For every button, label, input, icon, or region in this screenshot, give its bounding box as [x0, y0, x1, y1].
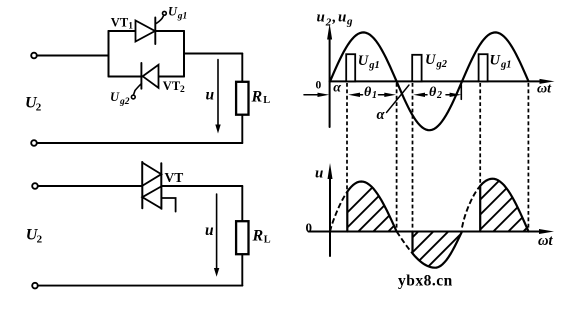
svg-text:0: 0 — [306, 220, 313, 235]
svg-text:VT: VT — [111, 16, 129, 30]
svg-text:,: , — [332, 9, 337, 25]
svg-text:VT: VT — [165, 170, 184, 185]
svg-text:L: L — [264, 234, 271, 245]
svg-text:u: u — [206, 87, 215, 104]
svg-text:U: U — [425, 52, 437, 68]
svg-text:U: U — [110, 90, 120, 104]
svg-text:ybx8.cn: ybx8.cn — [398, 273, 453, 290]
svg-text:ωt: ωt — [537, 82, 552, 97]
svg-text:ωt: ωt — [538, 233, 553, 249]
svg-text:g1: g1 — [368, 60, 380, 71]
svg-text:u: u — [338, 9, 346, 25]
svg-text:R: R — [252, 228, 264, 245]
svg-text:L: L — [263, 95, 270, 106]
svg-text:1: 1 — [128, 22, 133, 32]
svg-text:θ: θ — [364, 85, 372, 100]
svg-text:α: α — [377, 107, 386, 123]
svg-text:2: 2 — [36, 101, 42, 113]
svg-text:u: u — [205, 222, 214, 239]
svg-text:0: 0 — [316, 79, 322, 91]
svg-text:g2: g2 — [119, 97, 130, 107]
svg-text:u: u — [317, 9, 325, 25]
svg-text:g1: g1 — [177, 11, 188, 21]
svg-text:U: U — [358, 53, 370, 69]
svg-text:U: U — [490, 53, 502, 69]
svg-text:2: 2 — [325, 17, 332, 29]
svg-text:g1: g1 — [500, 60, 512, 71]
svg-text:2: 2 — [180, 85, 185, 95]
svg-text:2: 2 — [436, 90, 442, 101]
svg-text:VT: VT — [163, 79, 181, 93]
svg-text:1: 1 — [372, 90, 377, 101]
svg-text:θ: θ — [429, 85, 437, 100]
svg-text:g: g — [346, 16, 353, 28]
svg-text:g2: g2 — [436, 59, 448, 70]
svg-text:U: U — [168, 5, 178, 19]
svg-text:R: R — [251, 89, 263, 106]
svg-text:2: 2 — [37, 233, 43, 245]
svg-text:u: u — [315, 166, 323, 182]
svg-text:α: α — [333, 80, 341, 95]
